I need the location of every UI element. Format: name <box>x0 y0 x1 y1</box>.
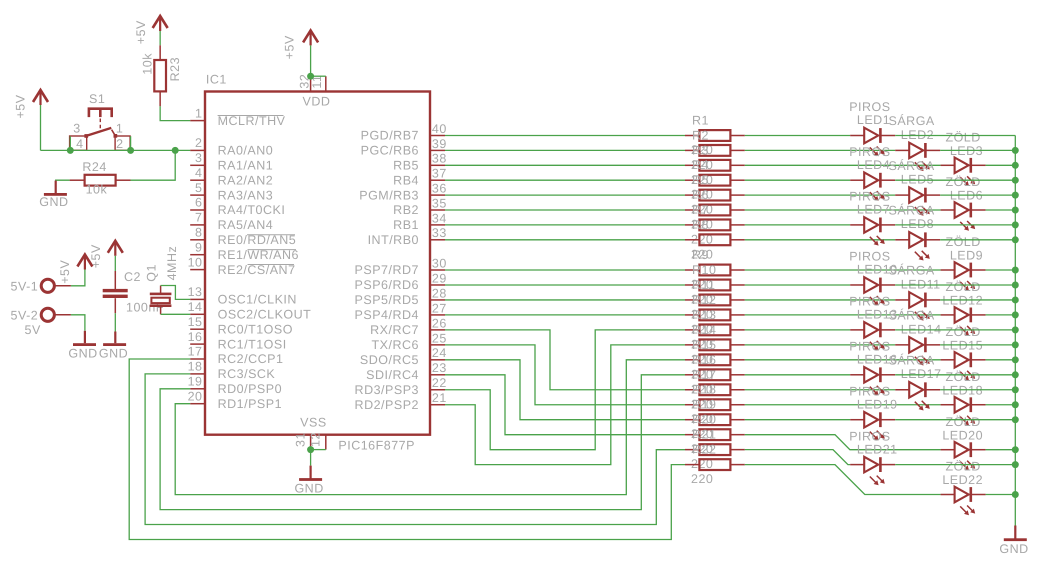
wire R11 to LED11 <box>745 299 895 301</box>
wire Q1 top to pin 13 (OSC1) <box>161 286 191 300</box>
junction bus row LED21 <box>1012 461 1019 468</box>
IC1 pin 33 (INT/RB0) <box>368 226 447 247</box>
svg-text:R22: R22 <box>692 443 716 457</box>
wire LED18 to cathode bus <box>986 404 1016 406</box>
IC1 pin 7 (RA5/AN4) <box>190 211 273 233</box>
wire pin 28 to R11 <box>445 299 685 301</box>
svg-text:R13: R13 <box>692 308 716 322</box>
resistor R6 220 <box>685 188 745 232</box>
svg-text:17: 17 <box>188 345 203 359</box>
svg-text:ZÖLD: ZÖLD <box>945 280 980 294</box>
svg-text:LED20: LED20 <box>942 428 983 442</box>
svg-text:RC0/T1OSO: RC0/T1OSO <box>218 322 293 336</box>
resistor R16 220 <box>685 353 745 397</box>
wire 5V-1 to +5V <box>71 270 85 286</box>
resistor R20 220 <box>685 413 745 457</box>
svg-text:28: 28 <box>432 286 447 300</box>
IC1 pin 34 (RB1) <box>393 211 447 232</box>
ground GND at VSS <box>294 466 323 496</box>
svg-text:RX/RC7: RX/RC7 <box>370 323 419 337</box>
junction bus row LED5 <box>1012 192 1019 199</box>
svg-text:SDI/RC4: SDI/RC4 <box>366 368 419 382</box>
LED8 SÁRGA <box>889 204 941 261</box>
svg-text:R12: R12 <box>692 293 716 307</box>
junction bus row LED22 <box>1012 491 1019 498</box>
junction bus row LED7 <box>1012 221 1019 228</box>
svg-text:LED4: LED4 <box>857 158 890 172</box>
svg-text:RC1/T1OSI: RC1/T1OSI <box>218 337 287 351</box>
LED12 ZÖLD <box>941 280 986 336</box>
resistor R3 220 <box>685 143 745 187</box>
ground GND at C2 <box>99 332 128 361</box>
svg-text:34: 34 <box>432 211 447 225</box>
svg-text:OSC2/CLKOUT: OSC2/CLKOUT <box>218 308 312 322</box>
svg-text:RA2/AN2: RA2/AN2 <box>218 173 274 187</box>
svg-text:R4: R4 <box>692 158 709 172</box>
wire +5V S1 to pin 2 of IC <box>41 149 191 151</box>
IC1 pin 26 (RX/RC7) <box>370 316 447 337</box>
wire R1 to LED1 <box>745 135 850 137</box>
svg-text:R16: R16 <box>692 353 716 367</box>
wire pin 24 to R19 <box>445 360 685 420</box>
svg-text:GND: GND <box>294 482 323 496</box>
svg-text:RB5: RB5 <box>393 159 419 173</box>
svg-text:22: 22 <box>432 376 447 390</box>
svg-text:33: 33 <box>432 226 447 240</box>
LED11 SÁRGA <box>889 264 941 321</box>
IC1 pin 19 (RD0/PSP0) <box>188 375 282 397</box>
IC1 pin 28 (PSP5/RD5) <box>355 286 447 307</box>
+5V supply symbol at C2 <box>89 241 123 268</box>
svg-text:RA5/AN4: RA5/AN4 <box>218 218 274 232</box>
svg-text:PIROS: PIROS <box>849 250 890 264</box>
svg-text:R11: R11 <box>692 278 716 292</box>
resistor R21 220 <box>685 428 745 472</box>
IC1 pin 15 (RC0/T1OSO) <box>188 315 293 337</box>
svg-text:RD1/PSP1: RD1/PSP1 <box>218 397 282 411</box>
IC1 pin 22 (RD3/PSP3) <box>355 376 447 397</box>
wire LED4 to cathode bus <box>895 179 1015 181</box>
resistor R8 220 <box>685 218 745 261</box>
svg-text:SÁRGA: SÁRGA <box>889 159 935 173</box>
svg-text:1: 1 <box>116 122 123 136</box>
svg-text:2: 2 <box>116 137 123 151</box>
svg-text:R1: R1 <box>692 114 709 128</box>
+5V supply symbol at S1 <box>14 90 49 119</box>
svg-text:40: 40 <box>432 122 447 136</box>
LED10 PIROS <box>849 250 897 306</box>
resistor R2 220 <box>685 128 745 172</box>
svg-text:19: 19 <box>188 375 203 389</box>
IC1 pin 18 (RC3/SCK) <box>188 360 276 382</box>
wire R3 to LED3 <box>745 164 941 166</box>
LED5 SÁRGA <box>889 159 941 216</box>
LED20 ZÖLD <box>941 415 986 471</box>
wire R18 to LED18 <box>745 404 941 406</box>
wire S1 pin4 branch <box>69 136 71 150</box>
svg-text:R19: R19 <box>692 398 716 412</box>
LED16 PIROS <box>849 339 897 395</box>
svg-text:PSP5/RD5: PSP5/RD5 <box>355 293 419 307</box>
svg-text:ZÖLD: ZÖLD <box>945 370 980 384</box>
wire pin 23 to R20 <box>445 375 685 435</box>
svg-text:RB2: RB2 <box>393 203 419 217</box>
resistor R24 10k <box>70 160 131 196</box>
wire pin 39 to R2 <box>445 149 685 151</box>
svg-text:+5V: +5V <box>89 244 103 268</box>
IC1 pin 17 (RC2/CCP1) <box>188 345 284 367</box>
svg-text:25: 25 <box>432 331 447 345</box>
IC1 pin 29 (PSP6/RD6) <box>355 271 447 292</box>
wire R6 to LED6 <box>745 209 941 211</box>
wire branch down to R24 <box>131 150 176 180</box>
svg-text:R5: R5 <box>692 173 709 187</box>
wire R24 to GND <box>56 179 70 182</box>
wire R19 to LED19 <box>745 419 850 421</box>
LED22 ZÖLD <box>941 460 986 516</box>
wire +5V to R23 <box>159 31 161 45</box>
IC1 pin 20 (RD1/PSP1) <box>188 389 282 411</box>
IC IC1 PIC16F877P body <box>205 72 430 452</box>
svg-text:+5V: +5V <box>58 260 72 284</box>
wire LED22 to cathode bus <box>986 494 1016 496</box>
resistor R11 220 <box>685 278 745 322</box>
resistor R19 220 <box>685 398 745 442</box>
IC1 pin 12 (VSS) <box>309 432 326 450</box>
svg-text:13: 13 <box>188 285 203 299</box>
svg-text:R2: R2 <box>692 128 709 142</box>
junction R24 branch <box>172 147 179 154</box>
junction VDD <box>307 73 314 80</box>
junction bus row LED18 <box>1012 401 1019 408</box>
junction VSS <box>307 446 314 453</box>
svg-text:VDD: VDD <box>303 95 331 109</box>
svg-text:ZÖLD: ZÖLD <box>945 235 980 249</box>
wire R21 to LED21 (jog down) <box>745 450 850 465</box>
svg-text:SÁRGA: SÁRGA <box>889 309 935 323</box>
IC1 pin 21 (RD2/PSP2) <box>355 391 447 412</box>
wire +5V to VDD pins <box>310 45 312 76</box>
wire pin 40 to R1 <box>445 135 685 137</box>
svg-text:10k: 10k <box>140 53 154 75</box>
wire LED1 to cathode bus <box>895 135 1015 137</box>
wire R4 to LED4 <box>745 179 850 181</box>
svg-text:Q1: Q1 <box>145 264 159 282</box>
svg-text:4MHz: 4MHz <box>165 246 179 281</box>
svg-text:R20: R20 <box>692 413 716 427</box>
svg-text:5V-1: 5V-1 <box>11 280 39 294</box>
svg-text:INT/RB0: INT/RB0 <box>368 233 419 247</box>
svg-text:20: 20 <box>188 389 203 403</box>
wire +5V to C2 <box>114 256 116 271</box>
svg-text:5V: 5V <box>25 323 41 337</box>
wire S1 pin2 branch <box>130 136 132 150</box>
LED18 ZÖLD <box>941 370 986 426</box>
resistor R15 220 <box>685 338 745 382</box>
svg-text:4: 4 <box>76 137 83 151</box>
svg-text:R14: R14 <box>692 323 716 337</box>
svg-text:RB1: RB1 <box>393 218 419 232</box>
wire pin 25 to R18 <box>445 345 685 405</box>
+5V supply symbol above R23 <box>134 16 168 44</box>
svg-text:3: 3 <box>195 151 202 165</box>
svg-text:38: 38 <box>432 152 447 166</box>
junction bus row LED4 <box>1012 177 1019 184</box>
wire R9 to LED9 <box>745 269 941 271</box>
wire pin 26 to R17 <box>445 330 685 390</box>
svg-text:10k: 10k <box>86 182 108 196</box>
LED15 ZÖLD <box>941 325 986 381</box>
LED14 SÁRGA <box>889 309 942 366</box>
svg-text:PIROS: PIROS <box>849 429 890 443</box>
svg-text:RA3/AN3: RA3/AN3 <box>218 188 274 202</box>
junction bus row LED8 <box>1012 236 1019 243</box>
svg-text:27: 27 <box>432 301 447 315</box>
+5V supply symbol above VDD <box>283 30 318 59</box>
wire LED9 to cathode bus <box>986 269 1016 271</box>
svg-text:PGC/RB6: PGC/RB6 <box>361 144 419 158</box>
junction bus row LED12 <box>1012 311 1019 318</box>
IC1 pin 1 (MCLR/THV) <box>190 106 285 128</box>
junction S1 pin4 <box>67 147 74 154</box>
wire LED3 to cathode bus <box>986 164 1016 166</box>
svg-text:OSC1/CLKIN: OSC1/CLKIN <box>218 293 297 307</box>
LED1 PIROS <box>849 100 895 156</box>
wire pin 30 to R9 <box>445 269 685 271</box>
IC1 pin 35 (RB2) <box>393 196 447 217</box>
resistor R9 220 <box>685 248 745 292</box>
resistor R17 220 <box>685 368 745 412</box>
svg-text:RD2/PSP2: RD2/PSP2 <box>355 398 419 412</box>
wire Q1 bottom to pin 14 (OSC2) <box>161 313 191 315</box>
IC1 pin 32 (VDD) <box>298 74 312 92</box>
wire LED12 to cathode bus <box>986 314 1016 316</box>
junction bus row LED20 <box>1012 446 1019 453</box>
svg-text:ZÖLD: ZÖLD <box>945 415 980 429</box>
resistor R5 220 <box>685 173 745 217</box>
wire pin 22 to R13 <box>445 330 685 450</box>
junction bus row LED15 <box>1012 356 1019 363</box>
wire R15 to LED15 <box>745 359 941 361</box>
svg-text:LED19: LED19 <box>857 397 898 411</box>
IC1 pin 9 (RE1/WR/AN6) <box>190 240 299 262</box>
junction bus row LED9 <box>1012 267 1019 274</box>
svg-text:4: 4 <box>195 166 202 180</box>
junction bus row LED14 <box>1012 341 1019 348</box>
svg-text:21: 21 <box>432 391 447 405</box>
svg-text:R3: R3 <box>692 143 709 157</box>
svg-text:23: 23 <box>432 361 447 375</box>
wire LED21 to cathode bus <box>895 464 1015 466</box>
LED19 PIROS <box>849 384 897 440</box>
svg-text:R15: R15 <box>692 338 716 352</box>
svg-text:VSS: VSS <box>300 415 327 429</box>
svg-text:SDO/RC5: SDO/RC5 <box>360 353 419 367</box>
svg-text:C2: C2 <box>124 270 141 284</box>
svg-text:R7: R7 <box>692 203 709 217</box>
ground GND at R24 <box>39 181 68 209</box>
svg-text:24: 24 <box>432 346 447 360</box>
crystal Q1 4MHz <box>145 246 180 315</box>
svg-text:PSP6/RD6: PSP6/RD6 <box>355 278 419 292</box>
IC1 pin 3 (RA1/AN1) <box>190 151 273 173</box>
connector 5V-2 <box>11 308 71 337</box>
resistor R13 220 <box>685 308 745 352</box>
IC1 pin 37 (RB4) <box>393 167 447 188</box>
IC1 pin 31 (VSS) <box>293 432 310 450</box>
svg-text:ZÖLD: ZÖLD <box>945 131 980 145</box>
wire R17 to LED17 <box>745 389 895 391</box>
wire pin 36 to R5 <box>445 194 685 196</box>
svg-text:29: 29 <box>432 271 447 285</box>
IC1 pin 14 (OSC2/CLKOUT) <box>188 300 312 322</box>
svg-text:SÁRGA: SÁRGA <box>889 114 935 128</box>
wire LED2 to cathode bus <box>940 149 1015 151</box>
svg-text:R21: R21 <box>692 428 716 442</box>
resistor R7 220 <box>685 203 745 247</box>
LED4 PIROS <box>849 145 895 201</box>
IC1 pin 8 (RE0/RD/AN5) <box>190 226 296 248</box>
wire pin 38 to R3 <box>445 164 685 166</box>
svg-text:2: 2 <box>195 136 202 150</box>
svg-text:RC2/CCP1: RC2/CCP1 <box>218 352 284 366</box>
svg-text:LED7: LED7 <box>857 203 890 217</box>
svg-text:16: 16 <box>188 330 203 344</box>
junction bus row LED13 <box>1012 326 1019 333</box>
svg-text:+5V: +5V <box>14 94 28 118</box>
IC1 pin 11 (VDD) <box>310 75 326 92</box>
svg-text:PGD/RB7: PGD/RB7 <box>361 129 419 143</box>
wire R13 to LED13 <box>745 329 850 331</box>
wire pin 37 to R4 <box>445 179 685 181</box>
wire pin 18 to R21 <box>145 374 685 525</box>
wire LED19 to cathode bus <box>895 419 1015 421</box>
resistor R18 220 <box>685 383 745 427</box>
wire pin 33 to R8 <box>445 239 685 241</box>
svg-text:PGM/RB3: PGM/RB3 <box>359 188 419 202</box>
svg-text:LED2: LED2 <box>901 128 934 142</box>
svg-text:18: 18 <box>188 360 203 374</box>
svg-text:IC1: IC1 <box>206 72 227 86</box>
wire VDD pin bridge <box>311 75 326 77</box>
wire R22 to LED22 (jog down) <box>745 465 941 495</box>
svg-text:GND: GND <box>99 347 128 361</box>
wire 5V-2 to GND <box>71 315 85 331</box>
svg-text:PSP7/RD7: PSP7/RD7 <box>355 263 419 277</box>
svg-text:7: 7 <box>195 211 202 225</box>
wire VSS pin bridge <box>311 449 326 451</box>
ground GND at bus <box>999 526 1028 557</box>
svg-text:26: 26 <box>432 316 447 330</box>
junction bus row LED10 <box>1012 281 1019 288</box>
wire LED6 to cathode bus <box>986 209 1016 211</box>
svg-text:TX/RC6: TX/RC6 <box>372 338 419 352</box>
svg-text:1: 1 <box>195 106 202 120</box>
IC1 pin 13 (OSC1/CLKIN) <box>188 285 297 307</box>
svg-text:SÁRGA: SÁRGA <box>889 204 935 218</box>
LED9 ZÖLD <box>941 235 986 291</box>
svg-text:PIROS: PIROS <box>849 190 890 204</box>
IC1 pin 39 (PGC/RB6) <box>361 137 447 158</box>
wire LED7 to cathode bus <box>895 224 1015 226</box>
wire C2 to GND <box>114 313 116 331</box>
svg-text:9: 9 <box>195 240 202 254</box>
svg-text:RA0/AN0: RA0/AN0 <box>218 144 274 158</box>
junction bus row LED16 <box>1012 371 1019 378</box>
svg-text:ZÖLD: ZÖLD <box>945 175 980 189</box>
svg-text:6: 6 <box>195 196 202 210</box>
svg-text:10: 10 <box>188 255 203 269</box>
wire R5 to LED5 <box>745 194 895 196</box>
junction bus row LED19 <box>1012 416 1019 423</box>
IC1 pin 40 (PGD/RB7) <box>361 122 447 143</box>
IC1 pin 10 (RE2/CS/AN7) <box>188 255 296 277</box>
IC1 pin 24 (SDO/RC5) <box>360 346 447 367</box>
svg-text:LED8: LED8 <box>901 217 934 231</box>
wire pin 35 to R6 <box>445 209 685 211</box>
svg-text:RC3/SCK: RC3/SCK <box>218 367 276 381</box>
svg-text:+5V: +5V <box>134 20 148 44</box>
IC1 pin 4 (RA2/AN2) <box>190 166 273 188</box>
svg-text:12: 12 <box>309 432 323 447</box>
wire R10 to LED10 <box>745 284 850 286</box>
svg-text:S1: S1 <box>89 92 105 106</box>
svg-text:PIROS: PIROS <box>849 339 890 353</box>
connector 5V-1 <box>11 279 71 293</box>
svg-text:15: 15 <box>188 315 203 329</box>
svg-text:PIROS: PIROS <box>849 384 890 398</box>
svg-text:LED1: LED1 <box>857 113 890 127</box>
wire pin 19 to R16 <box>160 375 685 510</box>
IC1 pin 6 (RA4/T0CKI) <box>190 196 285 218</box>
wire LED8 to cathode bus <box>940 239 1015 241</box>
svg-text:LED9: LED9 <box>950 249 983 263</box>
IC1 pin 5 (RA3/AN3) <box>190 181 273 203</box>
wire cathode bus vertical <box>1014 136 1016 526</box>
LED7 PIROS <box>849 190 895 246</box>
wire R20 to LED20 (jog down) <box>745 435 941 450</box>
+5V supply symbol at 5V-1 <box>58 255 93 284</box>
IC1 pin 30 (PSP7/RD7) <box>355 256 447 277</box>
IC1 pin 25 (TX/RC6) <box>372 331 447 352</box>
wire pin 27 to R12 <box>445 314 685 316</box>
svg-text:PIROS: PIROS <box>849 295 890 309</box>
wire pin 34 to R7 <box>445 224 685 226</box>
svg-text:39: 39 <box>432 137 447 151</box>
junction bus row LED11 <box>1012 296 1019 303</box>
svg-text:ZÖLD: ZÖLD <box>945 460 980 474</box>
wire LED17 to cathode bus <box>940 389 1015 391</box>
wire LED14 to cathode bus <box>940 344 1015 346</box>
svg-text:R8: R8 <box>692 218 709 232</box>
svg-text:R9: R9 <box>692 248 709 262</box>
switch S1 <box>70 92 131 151</box>
IC1 pin 23 (SDI/RC4) <box>366 361 447 382</box>
LED17 SÁRGA <box>889 353 942 410</box>
junction bus row LED6 <box>1012 207 1019 214</box>
ground GND at 5V-2 <box>68 331 97 361</box>
IC1 pin 38 (RB5) <box>393 152 447 173</box>
svg-text:ZÖLD: ZÖLD <box>945 325 980 339</box>
wire LED20 to cathode bus <box>986 449 1016 451</box>
resistor R12 220 <box>685 293 745 337</box>
junction bus row LED2 <box>1012 147 1019 154</box>
wire pin 29 to R10 <box>445 284 685 286</box>
svg-text:LED5: LED5 <box>901 173 934 187</box>
svg-text:GND: GND <box>68 347 97 361</box>
resistor R1 220 <box>685 114 745 158</box>
wire R2 to LED2 <box>745 149 895 151</box>
